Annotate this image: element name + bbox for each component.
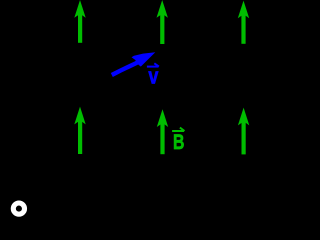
velocity vector v (blue arrowhead) bbox=[132, 52, 156, 66]
velocity vector v (blue arrow shaft) bbox=[112, 61, 141, 75]
label B with vector overbar bbox=[172, 128, 184, 154]
B field arrow top-middle bbox=[157, 0, 168, 44]
svg-text:v: v bbox=[148, 65, 159, 89]
B field arrow top-right bbox=[238, 1, 249, 44]
B field arrow top-left bbox=[74, 0, 85, 43]
B field arrow bottom-right bbox=[238, 108, 249, 155]
B field arrow bottom-middle bbox=[157, 109, 168, 154]
charged particle (white ring) bbox=[13, 203, 24, 214]
B field arrow bottom-left bbox=[74, 107, 85, 154]
label v with vector overbar bbox=[147, 63, 159, 89]
svg-text:B: B bbox=[173, 130, 184, 154]
